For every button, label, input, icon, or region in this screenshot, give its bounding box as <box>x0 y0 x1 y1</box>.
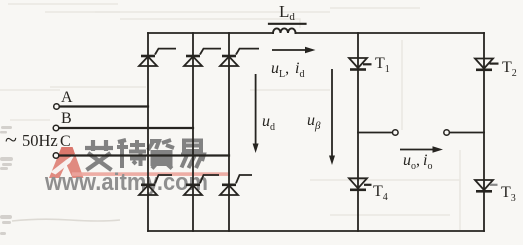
phase B wire <box>60 127 194 129</box>
inverter right leg wire <box>483 33 485 231</box>
arrow ubeta (down) <box>329 69 335 165</box>
output terminal right <box>444 130 450 136</box>
watermark red A logo <box>49 147 84 178</box>
svg-text:50Hz: 50Hz <box>22 131 58 150</box>
watermark red swoosh underline <box>72 172 230 176</box>
thyristor VT3 top-right (rectifier) <box>220 49 259 66</box>
arrow ud (down) <box>253 74 259 153</box>
bottom rail <box>148 230 484 232</box>
thyristor VT6 bottom-right (rectifier) <box>220 175 252 195</box>
thyristor VT5 bottom-mid (rectifier) <box>184 175 219 195</box>
rectifier leg 2 wire <box>192 33 194 231</box>
thyristor VT4 bottom-left (rectifier) <box>139 175 172 195</box>
thyristor T2 (inverter) <box>475 59 499 70</box>
svg-text:C: C <box>60 133 71 150</box>
thyristor VT2 top-mid (rectifier) <box>184 49 221 66</box>
left edge scan smudges <box>0 126 13 235</box>
inductor Ld coil <box>273 28 296 33</box>
terminal C <box>53 153 59 159</box>
terminal B <box>53 125 59 131</box>
thyristor T1 (inverter) <box>349 58 372 70</box>
thyristor VT1 top-left (rectifier) <box>139 49 176 66</box>
top rail left segment <box>148 32 273 34</box>
arrow io (output, right-pointing) <box>400 146 443 152</box>
arrow id (top, right-pointing) <box>272 47 316 53</box>
watermark chinese char 3 <box>148 140 174 169</box>
thyristor T4 (inverter) <box>349 178 372 190</box>
phase A wire <box>60 105 148 107</box>
rectifier leg 3 wire <box>228 33 230 231</box>
top rail right segment <box>296 32 485 34</box>
watermark chinese char 4 <box>181 141 204 169</box>
svg-text:B: B <box>61 110 72 127</box>
phase C wire <box>60 154 230 156</box>
inductor Ld core bar <box>269 23 306 25</box>
watermark chinese char 2 <box>117 140 146 168</box>
thyristor T3 (inverter) <box>475 180 498 191</box>
inverter left leg wire <box>357 33 359 231</box>
faint bottom-left wavy ghost <box>12 219 120 221</box>
output right stub wire <box>450 132 485 134</box>
rectifier leg 1 wire <box>147 33 149 231</box>
watermark chinese char 1 <box>85 140 113 170</box>
svg-text:~: ~ <box>5 127 17 152</box>
output terminal left <box>393 130 399 136</box>
terminal A <box>54 104 60 110</box>
svg-text:A: A <box>61 89 73 106</box>
output left stub wire <box>358 132 393 134</box>
svg-text:www.aitmy.com: www.aitmy.com <box>44 169 208 196</box>
